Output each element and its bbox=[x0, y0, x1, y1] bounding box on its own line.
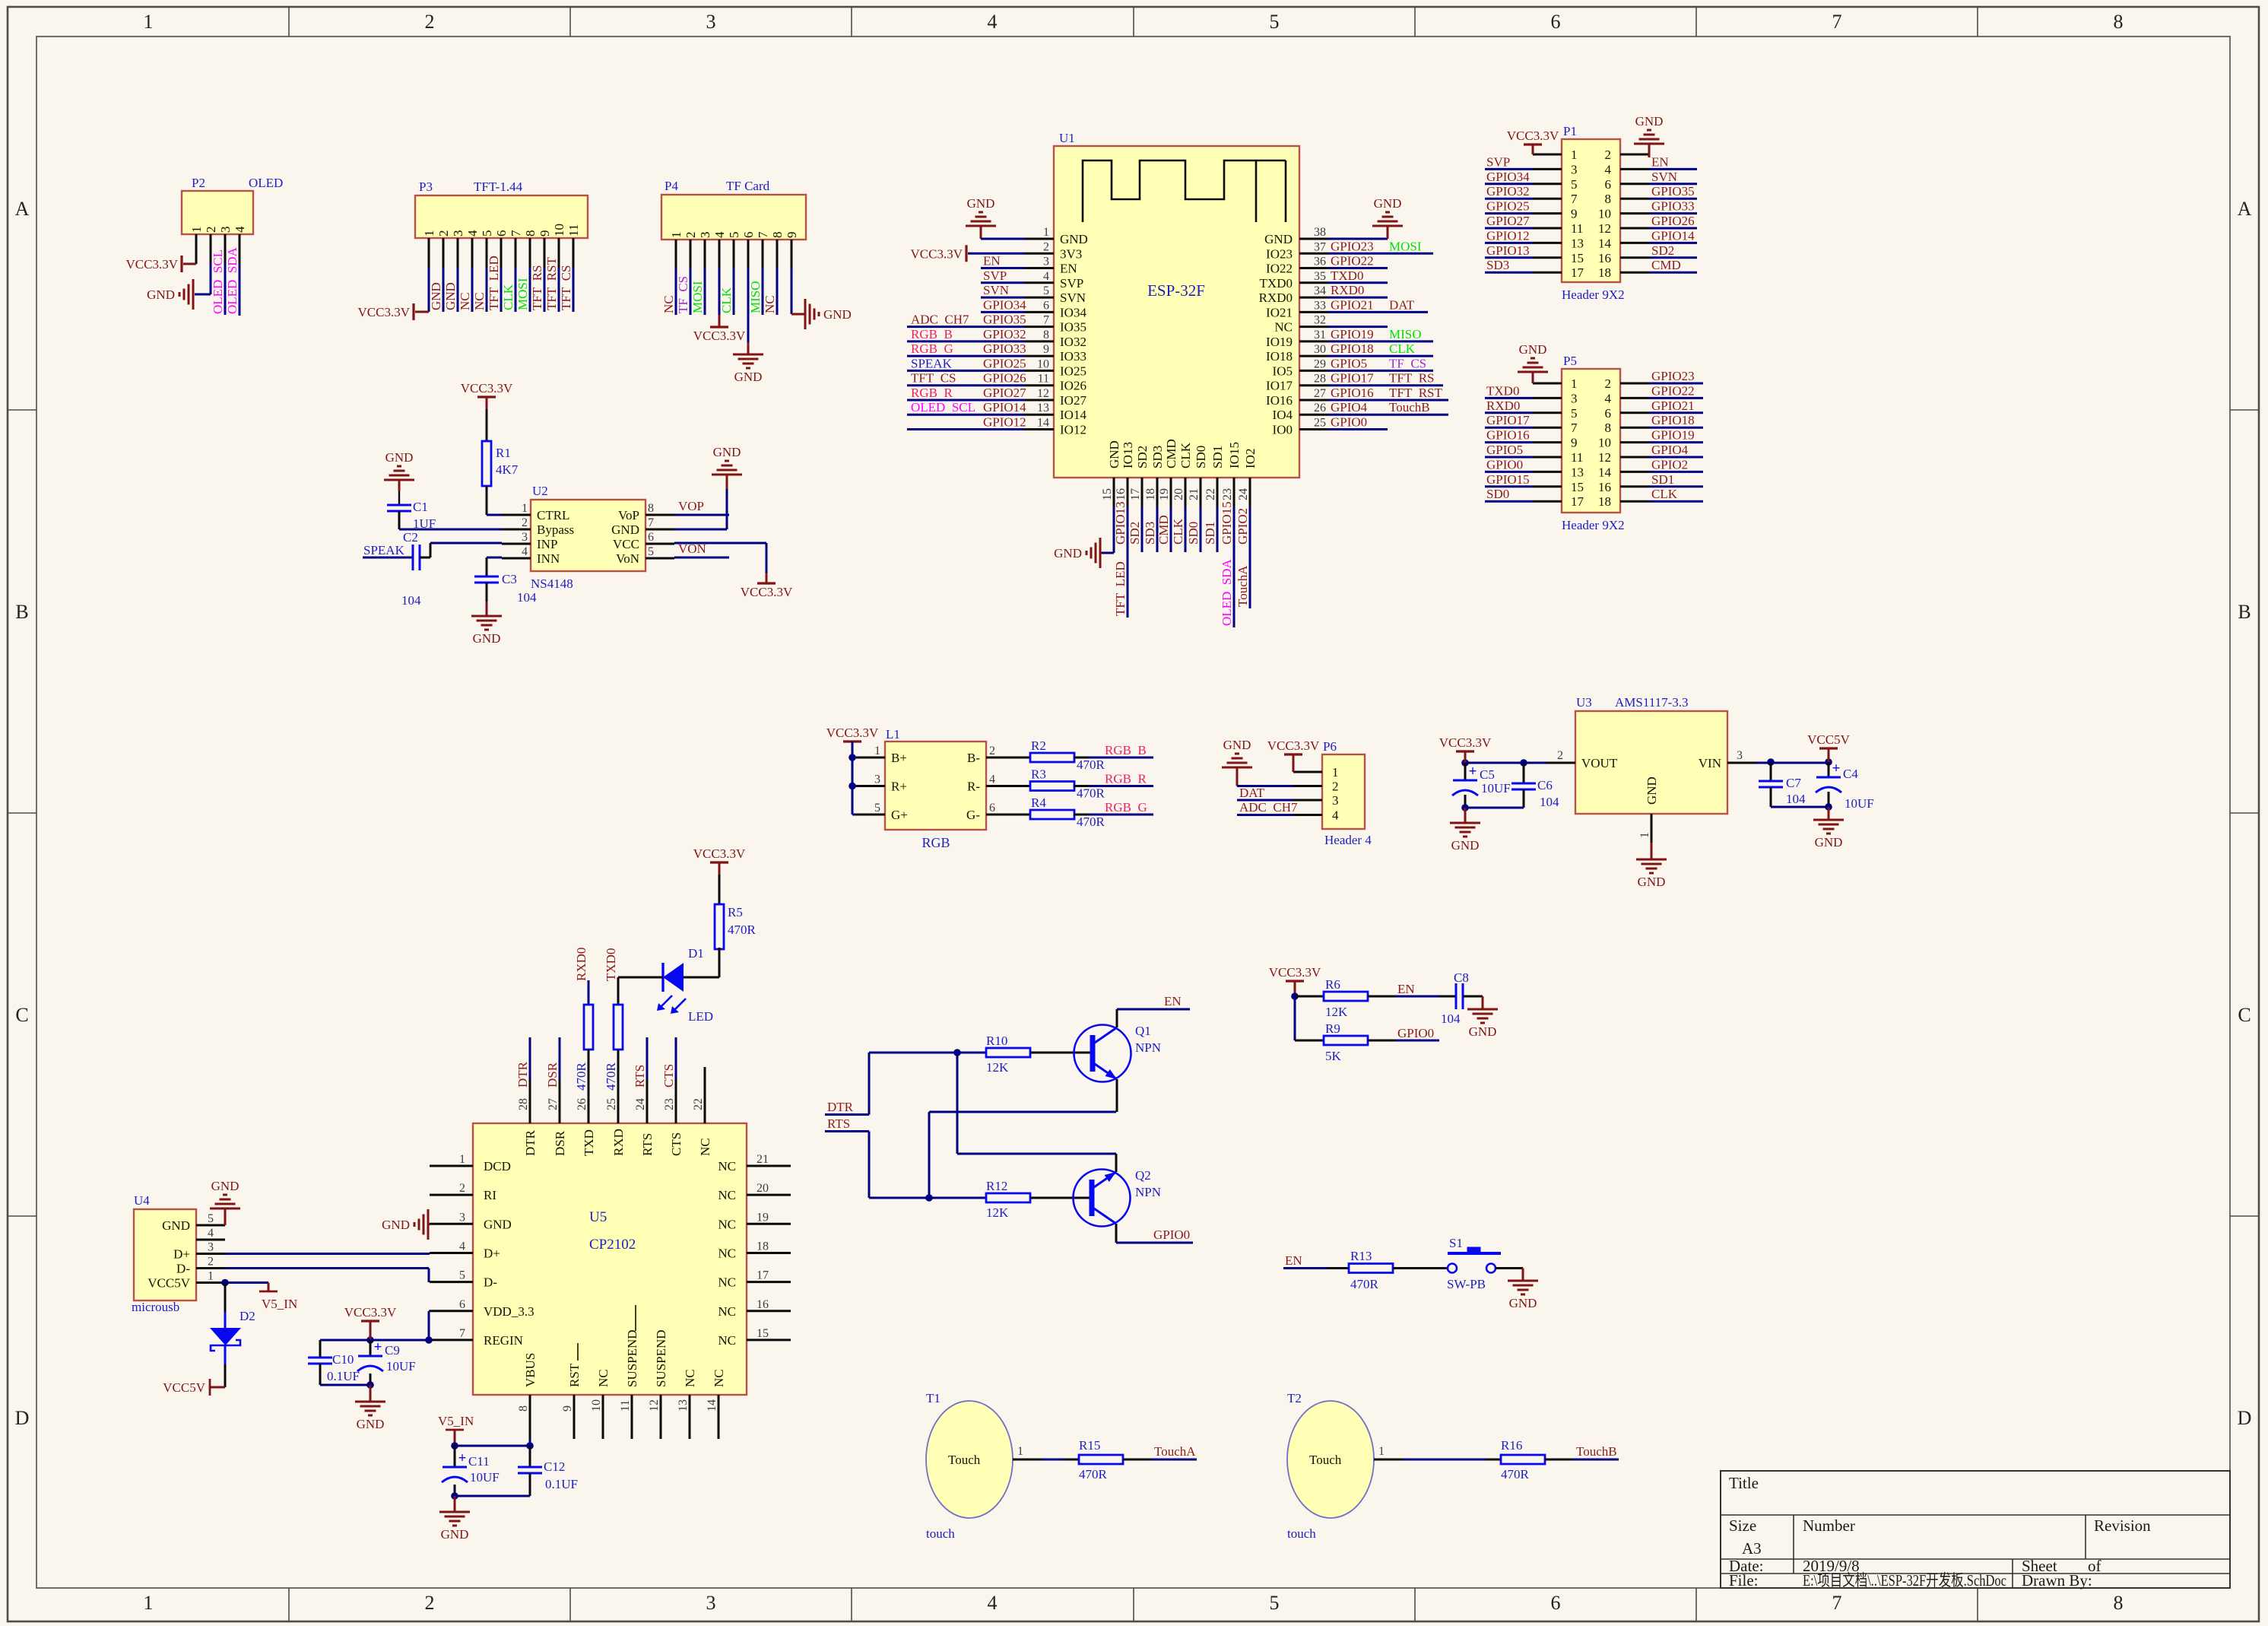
ground GND at P1 pin2 bbox=[1648, 154, 1651, 157]
svg-text:GPIO14: GPIO14 bbox=[1651, 228, 1695, 243]
svg-text:2: 2 bbox=[1043, 240, 1049, 253]
svg-text:R15: R15 bbox=[1079, 1438, 1100, 1453]
svg-text:4: 4 bbox=[1332, 808, 1339, 823]
wire T2 to R16 bbox=[1403, 1459, 1486, 1461]
svg-text:GPIO2: GPIO2 bbox=[1236, 508, 1250, 545]
wire P5 pin 5 / net RXD0 bbox=[1485, 411, 1533, 414]
svg-text:DAT: DAT bbox=[1389, 297, 1415, 312]
svg-text:22: 22 bbox=[692, 1098, 705, 1110]
wire U1 right pin 28 bbox=[1328, 384, 1443, 386]
svg-text:10: 10 bbox=[590, 1399, 603, 1412]
svg-text:NC: NC bbox=[718, 1217, 736, 1231]
wire R10 to Q1 base bbox=[1030, 1052, 1093, 1054]
svg-text:13: 13 bbox=[677, 1399, 690, 1412]
power port V5_IN near U4 bbox=[268, 1283, 270, 1292]
svg-text:IO21: IO21 bbox=[1266, 305, 1293, 319]
svg-text:NC: NC bbox=[718, 1333, 736, 1348]
svg-text:A: A bbox=[15, 198, 30, 220]
svg-text:GPIO4: GPIO4 bbox=[1331, 400, 1368, 414]
svg-text:INP: INP bbox=[537, 537, 557, 551]
P5 pin 2 bbox=[1620, 383, 1649, 385]
svg-text:V5_IN: V5_IN bbox=[262, 1297, 297, 1311]
svg-text:NC: NC bbox=[458, 292, 472, 310]
U4 pin5 wire to GND bbox=[224, 1208, 227, 1225]
wire U1 right pin 26 bbox=[1328, 414, 1448, 416]
svg-text:GPIO13: GPIO13 bbox=[1486, 243, 1530, 258]
wire U1 pin15 to GND bbox=[1113, 507, 1115, 553]
svg-text:VCC3.3V: VCC3.3V bbox=[1507, 129, 1559, 143]
svg-text:L1: L1 bbox=[886, 727, 900, 742]
wire U1 bottom pin 17 bbox=[1141, 507, 1144, 552]
wire to V5_IN port bbox=[225, 1281, 268, 1284]
P5 pin 14 bbox=[1620, 471, 1649, 473]
svg-text:SUSPEND: SUSPEND bbox=[625, 1329, 639, 1387]
svg-text:OLED SCL: OLED SCL bbox=[911, 400, 975, 414]
svg-text:E:\项目文档\..\ESP-32F开发板.SchDoc: E:\项目文档\..\ESP-32F开发板.SchDoc bbox=[1803, 1571, 2006, 1589]
junction bbox=[849, 754, 856, 761]
svg-text:SD1: SD1 bbox=[1203, 522, 1217, 545]
junction bbox=[925, 1194, 933, 1202]
svg-text:R+: R+ bbox=[891, 780, 907, 794]
U2 pin 7 GND bbox=[646, 529, 674, 531]
svg-text:P6: P6 bbox=[1323, 739, 1337, 754]
svg-text:20: 20 bbox=[757, 1182, 769, 1195]
svg-text:TXD0: TXD0 bbox=[604, 948, 618, 981]
svg-text:32: 32 bbox=[1314, 314, 1326, 327]
P2 pin2 wire to GND bbox=[210, 263, 212, 294]
resistor R12 12K bbox=[986, 1193, 1030, 1202]
svg-text:10: 10 bbox=[1037, 357, 1049, 370]
U5 pin 15 NC bbox=[747, 1339, 791, 1341]
wire P1 pin 6 / net SVN bbox=[1649, 183, 1697, 185]
svg-text:3: 3 bbox=[1571, 162, 1578, 176]
U1 pin 32 NC (right) bbox=[1299, 326, 1328, 328]
bottom rail C7/C4 bbox=[1770, 787, 1772, 807]
svg-text:470R: 470R bbox=[1077, 786, 1105, 801]
U1 pin 26 IO4 (right) bbox=[1299, 414, 1328, 416]
wire U2 VCC pin6 to VCC3.3V bbox=[674, 542, 766, 545]
svg-text:VCC3.3V: VCC3.3V bbox=[826, 726, 879, 740]
svg-text:16: 16 bbox=[1115, 488, 1128, 500]
svg-text:touch: touch bbox=[926, 1526, 955, 1541]
P2 pin4 wire OLED_SDA bbox=[239, 263, 241, 316]
T2 pin 1 bbox=[1374, 1459, 1403, 1461]
wire R5 to LED bbox=[718, 948, 721, 977]
IC U5 CP2102 bbox=[473, 1123, 747, 1395]
svg-text:GPIO17: GPIO17 bbox=[1486, 413, 1530, 427]
U1 pin 4 SVP (left) bbox=[1025, 281, 1054, 284]
svg-text:GPIO16: GPIO16 bbox=[1331, 386, 1374, 400]
svg-text:R4: R4 bbox=[1031, 796, 1046, 810]
svg-text:13: 13 bbox=[1571, 236, 1584, 250]
svg-text:TFT LED: TFT LED bbox=[1113, 561, 1128, 616]
svg-text:DCD: DCD bbox=[484, 1159, 511, 1173]
wire U1 right pin 36 bbox=[1328, 267, 1388, 269]
svg-text:IO12: IO12 bbox=[1060, 423, 1086, 437]
wire P1 pin 9 / net GPIO25 bbox=[1485, 212, 1533, 214]
U2 pin 4 INN bbox=[502, 557, 531, 560]
svg-text:4: 4 bbox=[1605, 162, 1612, 176]
P5 pin 11 bbox=[1533, 456, 1562, 459]
P5 pin 17 bbox=[1533, 500, 1562, 503]
wire U1 left pin 11 bbox=[907, 384, 1025, 386]
svg-text:31: 31 bbox=[1314, 329, 1326, 341]
U5 pin 20 NC bbox=[747, 1194, 791, 1196]
svg-text:R-: R- bbox=[967, 780, 980, 794]
svg-text:5: 5 bbox=[1571, 177, 1578, 192]
svg-text:7: 7 bbox=[1571, 192, 1578, 206]
svg-text:VCC3.3V: VCC3.3V bbox=[344, 1305, 397, 1320]
wire VOUT node bbox=[1465, 762, 1546, 764]
svg-text:GPIO25: GPIO25 bbox=[1486, 199, 1530, 214]
P4 pin 8 bbox=[776, 240, 779, 268]
svg-text:SD0: SD0 bbox=[1194, 446, 1208, 468]
svg-text:GPIO32: GPIO32 bbox=[1486, 184, 1530, 198]
L1 pin 2 B- bbox=[986, 757, 1015, 759]
wire P1 pin 7 / net GPIO32 bbox=[1485, 198, 1533, 200]
wire / net label DAT (P6 pin3) bbox=[1237, 799, 1293, 802]
wire T1 to R15 bbox=[1042, 1459, 1064, 1461]
U4 pin 4 NC bbox=[196, 1239, 225, 1241]
power port V5_IN above C11 bbox=[446, 1429, 464, 1431]
L1 pin 6 G- bbox=[986, 814, 1015, 816]
svg-text:12K: 12K bbox=[986, 1205, 1009, 1220]
svg-text:GPIO19: GPIO19 bbox=[1331, 327, 1374, 341]
P2 pin 1 bbox=[195, 234, 198, 263]
svg-text:R10: R10 bbox=[986, 1034, 1007, 1048]
svg-text:10UF: 10UF bbox=[1845, 796, 1874, 811]
svg-text:SPEAK: SPEAK bbox=[911, 356, 953, 370]
svg-text:6: 6 bbox=[989, 802, 995, 815]
net label DSR above U5 pin27 bbox=[559, 1037, 561, 1079]
svg-text:DSR: DSR bbox=[545, 1062, 560, 1088]
U5 pin 3 GND bbox=[430, 1223, 473, 1225]
connector P5 Header 9X2 bbox=[1562, 369, 1620, 513]
wire U1 left pin 4 bbox=[981, 281, 1025, 284]
svg-text:GPIO22: GPIO22 bbox=[1331, 254, 1374, 268]
P1 pin 4 bbox=[1620, 168, 1649, 170]
U5 pin 22 NC (top) bbox=[704, 1079, 706, 1123]
svg-text:GND: GND bbox=[162, 1218, 190, 1233]
wire R13 to S1 bbox=[1393, 1267, 1447, 1269]
svg-text:GND: GND bbox=[1638, 875, 1666, 889]
L1 pin 3 R+ bbox=[856, 785, 885, 787]
svg-text:D2: D2 bbox=[239, 1309, 255, 1323]
svg-text:2: 2 bbox=[684, 232, 698, 239]
U5 pin 9 RST (bottom) bbox=[573, 1395, 576, 1439]
wire U1 left pin 13 bbox=[907, 414, 1025, 416]
P3 pin 11 bbox=[573, 238, 575, 268]
svg-text:B: B bbox=[2238, 601, 2251, 623]
svg-text:15: 15 bbox=[1571, 480, 1584, 494]
svg-text:CLK: CLK bbox=[501, 284, 515, 310]
svg-text:GPIO35: GPIO35 bbox=[983, 313, 1026, 327]
U1 pin 13 IO14 (left) bbox=[1025, 414, 1054, 416]
wire P5 pin 8 / net GPIO18 bbox=[1649, 427, 1703, 429]
wire Q1 emitter down bbox=[1116, 1079, 1118, 1112]
svg-text:23: 23 bbox=[1221, 488, 1234, 500]
junction dots at VBUS node bbox=[451, 1442, 458, 1450]
svg-text:12: 12 bbox=[1598, 221, 1611, 236]
svg-text:REGIN: REGIN bbox=[484, 1333, 523, 1348]
svg-text:5: 5 bbox=[208, 1212, 214, 1225]
svg-text:8: 8 bbox=[2114, 11, 2124, 33]
svg-text:6: 6 bbox=[1551, 1592, 1561, 1614]
svg-text:19: 19 bbox=[1158, 488, 1171, 500]
U2 pin 3 INP bbox=[502, 543, 531, 545]
svg-text:MOSI: MOSI bbox=[1389, 239, 1422, 253]
U1 pin 17 SD2 (bottom) bbox=[1141, 478, 1144, 507]
U5 pin 4 D+ bbox=[430, 1252, 473, 1254]
svg-text:2: 2 bbox=[1557, 749, 1563, 762]
transistor Q1 NPN bbox=[1074, 1025, 1131, 1082]
svg-text:SD0: SD0 bbox=[1186, 522, 1201, 545]
svg-text:37: 37 bbox=[1314, 240, 1326, 253]
P5 pin 1 bbox=[1533, 383, 1562, 385]
svg-text:26: 26 bbox=[576, 1098, 588, 1110]
U2 pin 8 VoP bbox=[646, 514, 674, 516]
power port VCC3.3V above R1 bbox=[477, 395, 496, 398]
svg-text:RGB B: RGB B bbox=[1105, 743, 1147, 757]
svg-text:U4: U4 bbox=[134, 1193, 150, 1208]
svg-text:7: 7 bbox=[756, 231, 770, 238]
svg-text:VOP: VOP bbox=[678, 499, 704, 513]
svg-text:NC: NC bbox=[718, 1304, 736, 1319]
wire U1 right pin 37 bbox=[1328, 252, 1433, 255]
svg-text:D: D bbox=[2238, 1407, 2252, 1429]
svg-text:Header 9X2: Header 9X2 bbox=[1562, 287, 1625, 302]
svg-text:D+: D+ bbox=[173, 1247, 190, 1262]
svg-text:2: 2 bbox=[522, 516, 528, 529]
svg-text:VON: VON bbox=[678, 541, 706, 556]
svg-text:7: 7 bbox=[1043, 314, 1049, 327]
svg-text:5: 5 bbox=[1270, 1592, 1280, 1614]
capacitor C11 10UF bbox=[454, 1446, 456, 1467]
svg-text:TFT-1.44: TFT-1.44 bbox=[474, 179, 523, 194]
svg-text:1: 1 bbox=[1571, 148, 1578, 162]
wire DTR branch down to Q2 emitter row bbox=[956, 1053, 959, 1154]
wire R1 to U2 CTRL bbox=[486, 486, 488, 515]
svg-text:GPIO26: GPIO26 bbox=[1651, 214, 1695, 228]
svg-text:RTS: RTS bbox=[640, 1133, 655, 1156]
P2 pin1 wire to VCC3.3V bbox=[195, 263, 198, 264]
wire U2 VoN / net VON bbox=[674, 557, 729, 559]
svg-text:1: 1 bbox=[1378, 1445, 1385, 1458]
wire U1 bottom pin 23 bbox=[1233, 507, 1236, 627]
svg-text:GND: GND bbox=[1054, 546, 1082, 561]
svg-text:1: 1 bbox=[422, 230, 436, 237]
svg-text:C4: C4 bbox=[1843, 767, 1858, 781]
wire U1 right pin 32 bbox=[1328, 326, 1388, 328]
wire / net label TouchA bbox=[1123, 1459, 1151, 1461]
power port VCC3.3V at P3 pin1 bbox=[415, 311, 429, 313]
ground GND at P5 pin1 bbox=[1532, 372, 1534, 383]
U1 pin 5 SVN (left) bbox=[1025, 297, 1054, 299]
svg-text:RI: RI bbox=[484, 1188, 496, 1202]
svg-text:IO4: IO4 bbox=[1273, 408, 1293, 422]
wire U1 bottom pin 18 bbox=[1156, 507, 1159, 552]
svg-text:15: 15 bbox=[1571, 251, 1584, 265]
wire U4 D+ to U5 D+ bbox=[225, 1253, 430, 1255]
P2 pin 4 bbox=[239, 234, 241, 263]
svg-text:22: 22 bbox=[1204, 488, 1217, 500]
svg-text:R13: R13 bbox=[1350, 1249, 1372, 1263]
svg-text:EN: EN bbox=[1397, 982, 1415, 996]
P5 pin 16 bbox=[1620, 485, 1649, 487]
U1 pin 16 IO13 (bottom) bbox=[1127, 478, 1129, 507]
svg-text:RGB: RGB bbox=[921, 835, 950, 850]
svg-text:18: 18 bbox=[1144, 488, 1157, 500]
svg-text:GND: GND bbox=[1645, 776, 1659, 805]
svg-text:4: 4 bbox=[522, 545, 528, 558]
svg-text:10: 10 bbox=[1598, 436, 1611, 450]
svg-text:NC: NC bbox=[698, 1138, 712, 1156]
wire P1 pin 14 / net GPIO14 bbox=[1649, 242, 1697, 244]
svg-text:D: D bbox=[15, 1407, 30, 1429]
svg-text:C2: C2 bbox=[403, 530, 418, 545]
svg-text:G-: G- bbox=[966, 808, 980, 822]
junction bbox=[953, 1049, 961, 1056]
wire / net label ADC_CH7 (P6 pin4) bbox=[1237, 814, 1293, 816]
svg-text:GND: GND bbox=[473, 631, 501, 646]
capacitor C7 104 bbox=[1770, 762, 1772, 781]
svg-text:GND: GND bbox=[429, 282, 443, 310]
P6 pin 3 bbox=[1293, 799, 1322, 802]
svg-text:4: 4 bbox=[988, 1592, 998, 1614]
U5 pin 17 NC bbox=[747, 1281, 791, 1283]
U1 pin 2 3V3 (left) bbox=[1025, 252, 1054, 255]
bottom rail C9/C10 bbox=[319, 1364, 322, 1385]
svg-text:3: 3 bbox=[706, 1592, 716, 1614]
P3 pin 3 bbox=[457, 238, 459, 268]
svg-text:GPIO33: GPIO33 bbox=[983, 341, 1026, 356]
svg-text:CTRL: CTRL bbox=[537, 508, 569, 522]
P5 pin 18 bbox=[1620, 500, 1649, 503]
svg-text:VoN: VoN bbox=[616, 551, 639, 566]
svg-text:470R: 470R bbox=[728, 923, 757, 937]
svg-text:0.1UF: 0.1UF bbox=[327, 1369, 360, 1383]
svg-text:9: 9 bbox=[1571, 436, 1578, 450]
svg-text:6: 6 bbox=[494, 230, 509, 237]
svg-text:IO32: IO32 bbox=[1060, 335, 1086, 349]
svg-text:470R: 470R bbox=[604, 1062, 618, 1091]
ground GND below C11 bbox=[454, 1496, 456, 1512]
svg-text:VDD_3.3: VDD_3.3 bbox=[484, 1304, 534, 1319]
resistor R3 470R bbox=[1015, 785, 1030, 787]
wire / net label RGB G bbox=[1074, 814, 1089, 816]
svg-text:CLK: CLK bbox=[719, 287, 734, 313]
svg-text:470R: 470R bbox=[1077, 757, 1105, 772]
connector P1 Header 9X2 bbox=[1562, 139, 1620, 282]
U5 pin 1 DCD bbox=[430, 1165, 473, 1167]
svg-text:14: 14 bbox=[706, 1399, 718, 1412]
svg-text:GND: GND bbox=[734, 370, 763, 384]
svg-text:20: 20 bbox=[1172, 488, 1185, 500]
U5 pin 27 DSR (top) bbox=[559, 1079, 561, 1123]
svg-text:7: 7 bbox=[509, 230, 523, 237]
P3 pin 6 bbox=[500, 238, 503, 268]
wire P5 pin 18 / net CLK bbox=[1649, 500, 1703, 503]
U4 pin 1 VCC5V bbox=[196, 1281, 225, 1284]
svg-text:26: 26 bbox=[1314, 402, 1326, 414]
resistor R15 470R bbox=[1064, 1459, 1079, 1461]
svg-text:8: 8 bbox=[517, 1405, 530, 1412]
svg-text:ADC CH7: ADC CH7 bbox=[1239, 800, 1298, 815]
svg-text:VCC3.3V: VCC3.3V bbox=[126, 257, 179, 272]
P1 pin 15 bbox=[1533, 256, 1562, 259]
svg-text:RXD0: RXD0 bbox=[1259, 291, 1293, 305]
wire R12 to Q2 base bbox=[1030, 1197, 1093, 1199]
svg-text:NC: NC bbox=[1274, 320, 1293, 335]
svg-text:10: 10 bbox=[1598, 207, 1611, 221]
wire P5 pin 12 / net GPIO4 bbox=[1649, 456, 1703, 459]
P1 pin 18 bbox=[1620, 272, 1649, 274]
svg-text:IO16: IO16 bbox=[1266, 393, 1293, 408]
wire U2 INN to C3 bbox=[487, 557, 502, 559]
svg-text:GPIO23: GPIO23 bbox=[1651, 369, 1695, 383]
svg-text:3: 3 bbox=[522, 531, 528, 544]
svg-text:Touch: Touch bbox=[948, 1453, 981, 1467]
svg-text:CMD: CMD bbox=[1651, 258, 1681, 272]
svg-text:104: 104 bbox=[401, 593, 421, 608]
svg-text:10UF: 10UF bbox=[1481, 781, 1511, 796]
svg-text:8: 8 bbox=[648, 502, 654, 515]
wire U1 right pin 33 bbox=[1328, 311, 1428, 313]
U1 pin 29 IO5 (right) bbox=[1299, 370, 1328, 372]
P2 pin3 wire OLED_SCL bbox=[224, 263, 227, 315]
U5 pin 23 CTS (top) bbox=[675, 1079, 677, 1123]
svg-text:VCC5V: VCC5V bbox=[1807, 732, 1850, 747]
svg-text:NC: NC bbox=[596, 1369, 611, 1387]
U5 pin 8 VBUS (bottom) bbox=[529, 1395, 531, 1439]
svg-text:OLED SDA: OLED SDA bbox=[225, 246, 239, 314]
P3 pin 9 bbox=[544, 238, 546, 268]
svg-text:EN: EN bbox=[1285, 1253, 1302, 1268]
wire Q2 collector to GPIO0 bbox=[1115, 1224, 1118, 1243]
svg-text:7: 7 bbox=[1832, 11, 1842, 33]
svg-text:GPIO33: GPIO33 bbox=[1651, 199, 1695, 214]
U1 pin 27 IO16 (right) bbox=[1299, 399, 1328, 401]
wire / net label RGB R bbox=[1074, 785, 1089, 787]
svg-text:IO2: IO2 bbox=[1243, 449, 1258, 468]
svg-text:CMD: CMD bbox=[1164, 439, 1178, 468]
svg-text:IO17: IO17 bbox=[1266, 379, 1293, 393]
svg-text:TFT RS: TFT RS bbox=[1389, 371, 1435, 386]
svg-text:SW-PB: SW-PB bbox=[1447, 1277, 1486, 1291]
svg-text:EN: EN bbox=[983, 254, 1001, 268]
P5 pin 9 bbox=[1533, 441, 1562, 443]
svg-text:TouchA: TouchA bbox=[1154, 1444, 1196, 1459]
ground GND below C5 bbox=[1464, 808, 1467, 823]
power port VCC3.3V at U1 pin2 bbox=[965, 245, 967, 262]
U1 pin 15 GND (bottom) bbox=[1113, 478, 1115, 507]
svg-text:GPIO16: GPIO16 bbox=[1486, 428, 1530, 443]
P4 pin 4 bbox=[718, 240, 721, 268]
wire U1 bottom pin 16 bbox=[1127, 507, 1129, 618]
svg-text:DTR: DTR bbox=[523, 1129, 538, 1156]
wire U1 left pin 7 bbox=[907, 326, 1025, 328]
U3 pin1 GND bbox=[1651, 814, 1653, 843]
wire U4 D- to U5 D- bbox=[225, 1267, 429, 1269]
svg-text:GND: GND bbox=[1815, 835, 1843, 850]
capacitor C8 104 bbox=[1439, 996, 1456, 998]
wire U1 right pin 34 bbox=[1328, 297, 1388, 299]
wire P1 pin 17 / net SD3 bbox=[1485, 272, 1533, 274]
svg-text:7: 7 bbox=[648, 516, 654, 529]
svg-text:38: 38 bbox=[1314, 226, 1326, 239]
wire P5 pin 2 / net GPIO23 bbox=[1649, 383, 1703, 385]
svg-text:V5_IN: V5_IN bbox=[438, 1414, 474, 1428]
